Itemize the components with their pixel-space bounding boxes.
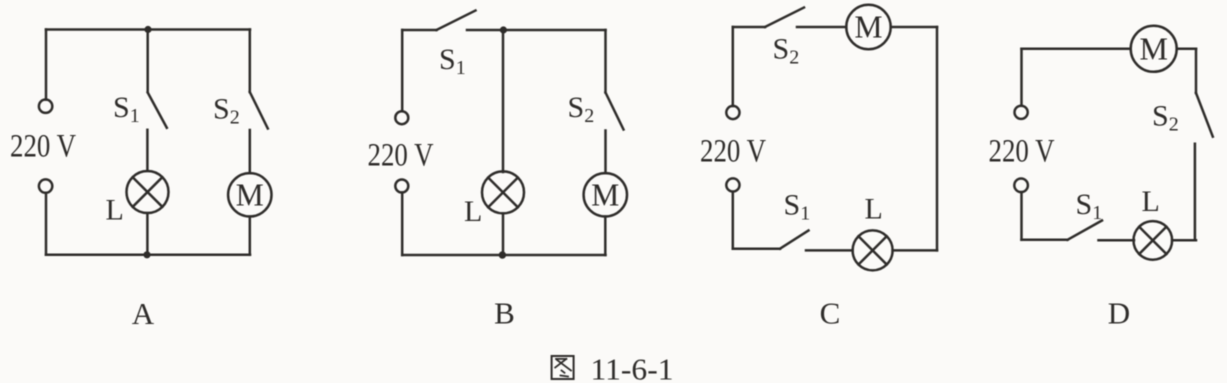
wire B bottom	[402, 254, 605, 257]
wire A top	[46, 28, 250, 31]
wire C left lower	[732, 192, 735, 249]
wire B motor to bottom	[604, 217, 607, 256]
wire D bottom left	[1022, 239, 1068, 242]
switch S2 B blade	[606, 93, 624, 130]
switch S1 D blade	[1068, 221, 1103, 240]
wire A bottom	[46, 254, 250, 257]
caption 图 11-6-1	[552, 352, 674, 383]
wire B lamp drop	[502, 30, 505, 172]
lamp L B	[482, 171, 524, 213]
wire B S2 to motor	[604, 131, 607, 174]
terminal A minus	[39, 179, 52, 192]
svg-text:C: C	[820, 296, 841, 331]
wire C bottom right	[893, 249, 937, 252]
wire D top right	[1177, 48, 1196, 51]
node B bottom junction	[499, 251, 506, 258]
switch S1 C blade	[780, 231, 809, 249]
svg-text:L: L	[464, 195, 482, 228]
svg-text:220 V: 220 V	[368, 138, 434, 174]
svg-text:L: L	[106, 194, 124, 227]
svg-text:M: M	[1139, 31, 1167, 67]
wire D left upper	[1020, 49, 1023, 106]
wire C top mid	[797, 26, 846, 29]
motor M B	[584, 173, 627, 216]
terminal D minus	[1014, 179, 1028, 193]
svg-text:M: M	[591, 177, 619, 212]
wire C top right	[891, 26, 937, 29]
svg-text:11-6-1: 11-6-1	[591, 352, 674, 383]
wire A motor to bottom	[249, 217, 252, 255]
wire A S1 to lamp	[146, 130, 149, 171]
wire D right lower	[1194, 144, 1197, 241]
svg-text:220 V: 220 V	[10, 129, 76, 165]
terminal C plus	[726, 106, 739, 119]
wire C right	[936, 27, 939, 250]
wire B left upper	[401, 30, 404, 111]
wire B left lower	[401, 193, 404, 256]
terminal D plus	[1015, 106, 1028, 119]
svg-text:S1: S1	[784, 189, 811, 225]
svg-text:S1: S1	[1076, 188, 1103, 224]
svg-text:S2: S2	[213, 93, 240, 129]
svg-text:A: A	[132, 296, 155, 331]
wire D bottom mid	[1099, 239, 1135, 242]
wire B top right	[467, 29, 606, 32]
lamp L A	[127, 171, 169, 213]
terminal C minus	[726, 178, 739, 191]
switch S2 D blade	[1196, 93, 1213, 137]
switch S1 A blade	[148, 93, 167, 128]
wire A left upper	[45, 30, 48, 100]
svg-text:S1: S1	[113, 91, 140, 127]
svg-text:S2: S2	[568, 91, 595, 127]
svg-text:220 V: 220 V	[700, 134, 766, 170]
wire D top left	[1022, 48, 1131, 51]
wire D bottom right	[1172, 239, 1196, 242]
wire C left upper	[732, 27, 735, 106]
wire D left lower	[1020, 192, 1023, 240]
wire B lamp to bottom	[502, 213, 505, 255]
terminal B plus	[395, 111, 408, 124]
wire A S2 drop	[249, 30, 252, 93]
wire A left lower	[45, 193, 48, 255]
lamp L D	[1134, 221, 1173, 260]
wire B top left	[402, 29, 436, 32]
lamp L C	[853, 230, 893, 270]
svg-text:220 V: 220 V	[989, 134, 1055, 170]
wire B S2 drop	[604, 30, 607, 93]
node A bottom junction	[143, 251, 150, 258]
switch S2 C blade	[765, 8, 804, 28]
wire A lamp to bottom	[146, 213, 149, 255]
node B top junction	[500, 26, 507, 33]
wire D right upper	[1195, 49, 1198, 93]
svg-text:B: B	[494, 296, 515, 331]
wire A S1 drop	[146, 30, 149, 93]
terminal A plus	[39, 100, 52, 113]
wire C top left	[733, 26, 765, 29]
terminal B minus	[395, 180, 408, 193]
motor M D	[1131, 26, 1177, 72]
svg-text:L: L	[865, 193, 883, 226]
wire C bottom mid	[806, 249, 853, 252]
wire A S2 to motor	[249, 130, 252, 173]
node A top junction	[144, 26, 151, 33]
wire C bottom left	[733, 247, 780, 250]
svg-text:S2: S2	[1152, 100, 1179, 136]
motor M C	[846, 5, 890, 49]
svg-text:M: M	[854, 10, 882, 45]
switch S2 A blade	[250, 92, 268, 129]
switch S1 B blade	[437, 11, 476, 31]
svg-text:S1: S1	[439, 43, 466, 79]
motor M A	[228, 173, 271, 216]
svg-text:D: D	[1108, 296, 1130, 331]
svg-text:S2: S2	[773, 33, 800, 69]
svg-text:L: L	[1142, 185, 1160, 218]
svg-text:M: M	[236, 177, 264, 212]
